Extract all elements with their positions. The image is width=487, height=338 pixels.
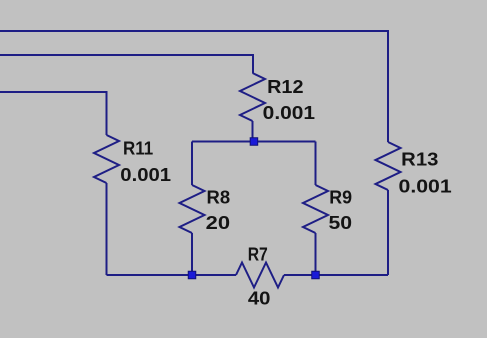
svg-text:40: 40 bbox=[248, 288, 271, 308]
svg-text:R8: R8 bbox=[207, 188, 231, 208]
svg-text:0.001: 0.001 bbox=[263, 103, 315, 123]
junction node at R9 bottom bbox=[312, 271, 320, 279]
svg-text:0.001: 0.001 bbox=[120, 165, 171, 185]
svg-text:R13: R13 bbox=[401, 150, 438, 170]
junction node at R8 bottom bbox=[188, 271, 196, 279]
resistor R11 bbox=[94, 135, 119, 275]
wire second net from left edge to R12 top bbox=[0, 55, 253, 73]
svg-text:20: 20 bbox=[206, 213, 230, 233]
wire bottom net left segment bbox=[107, 274, 237, 276]
svg-text:0.001: 0.001 bbox=[399, 176, 452, 196]
wire top net from left edge to R13 top bbox=[0, 31, 388, 142]
resistor R8 bbox=[180, 142, 205, 276]
svg-text:R9: R9 bbox=[329, 188, 352, 208]
resistor R7 bbox=[236, 263, 284, 288]
resistor R9 bbox=[303, 142, 328, 276]
svg-text:R7: R7 bbox=[248, 245, 268, 265]
svg-text:R12: R12 bbox=[267, 77, 303, 97]
svg-text:50: 50 bbox=[329, 213, 353, 233]
resistor R13 bbox=[376, 142, 401, 275]
wire third net from left edge to R11 top bbox=[0, 92, 107, 135]
wire bottom net right segment bbox=[284, 274, 388, 276]
resistor R12 bbox=[240, 73, 265, 142]
svg-text:R11: R11 bbox=[123, 139, 153, 159]
junction node below R12 bbox=[250, 138, 258, 146]
wire middle net between R8 top and R9 top bbox=[192, 141, 316, 143]
